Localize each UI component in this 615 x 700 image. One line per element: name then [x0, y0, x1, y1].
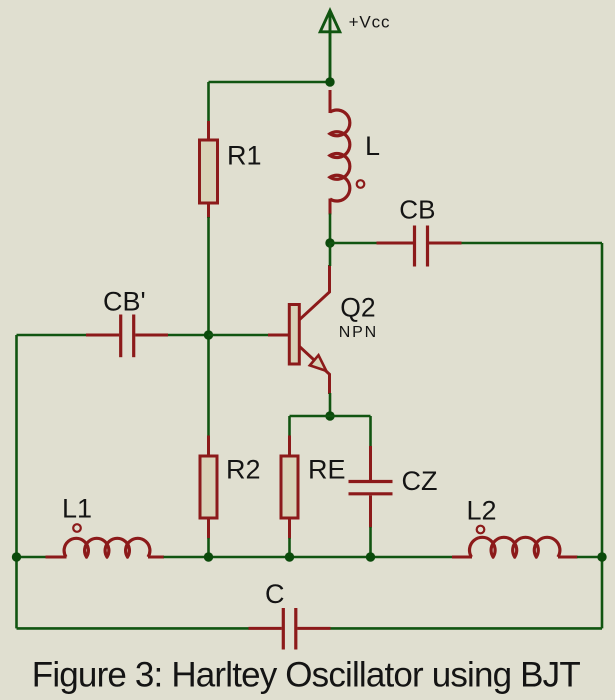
wire node B to Q2 base	[209, 334, 269, 337]
wire R2 bottom	[207, 538, 210, 557]
wire L bottom to node C	[329, 214, 332, 244]
pin circle of L1	[73, 524, 81, 532]
wire CB' to node B	[168, 334, 209, 337]
node C junction dot (collector node)	[325, 238, 334, 247]
wire RE top	[288, 416, 291, 436]
capacitor CZ	[349, 446, 393, 528]
node dot right rail bottom	[597, 552, 606, 561]
wire C row left	[17, 627, 250, 630]
svg-text:R2: R2	[226, 455, 261, 485]
svg-text:C: C	[265, 579, 285, 609]
wire R1 column top	[207, 82, 210, 122]
svg-text:NPN: NPN	[339, 324, 378, 341]
capacitor CB'	[86, 315, 168, 358]
node A junction dot (Vcc rail)	[325, 77, 334, 86]
pin circle of L	[357, 180, 365, 188]
wire RE bottom	[288, 538, 291, 557]
svg-text:CZ: CZ	[402, 466, 438, 496]
power symbol +Vcc	[320, 11, 340, 83]
resistor R2	[200, 436, 217, 539]
node B junction dot (base node)	[204, 330, 213, 339]
svg-text:L: L	[365, 131, 380, 161]
wire left rail to CB'	[17, 334, 87, 337]
pin circle of L2	[477, 526, 485, 534]
inductor L1	[46, 538, 165, 557]
capacitor CB	[377, 226, 462, 267]
inductor L	[330, 90, 350, 215]
node dot bottom left rail	[12, 552, 21, 561]
node dot RE bottom	[285, 552, 294, 561]
transistor Q2	[268, 265, 330, 394]
node D junction dot (emitter node)	[325, 411, 334, 420]
resistor R1	[200, 121, 218, 218]
wire CZ top	[369, 416, 372, 447]
wire CB to right rail	[462, 242, 603, 245]
wire left rail vertical	[15, 335, 18, 628]
inductor L2	[452, 537, 578, 557]
svg-text:R1: R1	[227, 141, 262, 171]
wire emitter to node D	[329, 393, 332, 416]
wire right rail vertical	[601, 243, 604, 628]
wire bottom row left rail to L1	[17, 556, 47, 559]
wire node C to CB	[330, 242, 377, 245]
wire C row right	[331, 627, 603, 630]
svg-text:Figure 3: Harltey Oscillator u: Figure 3: Harltey Oscillator using BJT	[32, 656, 581, 695]
wire top row node A to R1 column	[209, 81, 331, 84]
svg-text:Q2: Q2	[340, 293, 375, 323]
svg-text:RE: RE	[308, 455, 346, 485]
capacitor C	[249, 608, 331, 650]
wire bottom row middle	[164, 556, 453, 559]
svg-text:L1: L1	[62, 494, 92, 524]
wire node C to collector	[329, 243, 332, 266]
svg-text:L2: L2	[467, 496, 497, 526]
svg-text:+Vcc: +Vcc	[349, 13, 391, 32]
wire bottom row right	[577, 556, 602, 559]
svg-text:CB: CB	[399, 194, 435, 224]
wire CZ bottom	[369, 527, 372, 557]
svg-text:CB': CB'	[103, 287, 146, 317]
resistor RE	[281, 436, 298, 539]
wire emitter row	[290, 415, 371, 418]
wire R1 bottom to node B	[207, 217, 210, 436]
node dot R2 bottom	[204, 552, 213, 561]
node dot CZ bottom	[366, 552, 375, 561]
